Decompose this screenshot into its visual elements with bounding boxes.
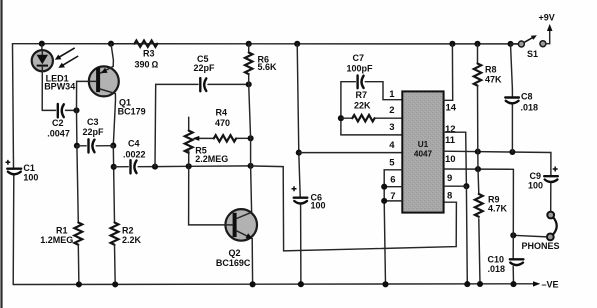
- node top rail C8 junction: [507, 41, 513, 47]
- label Q2: [229, 248, 241, 258]
- node bottom rail pins567: [382, 281, 388, 287]
- transistor Q2: [225, 209, 257, 241]
- label +9V: [539, 13, 555, 23]
- label C5: [197, 54, 209, 64]
- svg-text:BPW34: BPW34: [44, 82, 75, 92]
- wire left rail upper: [13, 44, 14, 168]
- wire pin12 to pin9 column: [444, 132, 467, 186]
- wire C4 line right: [138, 165, 250, 168]
- svg-text:2.2K: 2.2K: [122, 235, 142, 245]
- svg-text:C7: C7: [353, 53, 365, 63]
- pin 3: [389, 122, 394, 133]
- label plus C1: [6, 160, 11, 165]
- svg-text:14: 14: [446, 102, 457, 113]
- svg-text:C3: C3: [87, 117, 99, 127]
- wire R8 R9 link: [477, 152, 479, 170]
- svg-text:Q2: Q2: [229, 248, 241, 258]
- label plus C6: [292, 186, 297, 191]
- node bottom rail R9: [477, 281, 483, 287]
- svg-text:3: 3: [389, 122, 394, 133]
- label 100 C6: [311, 201, 326, 211]
- label R6: [258, 54, 270, 64]
- pin 10: [445, 154, 456, 165]
- node top rail C6 junction: [294, 41, 300, 47]
- node bottom rail R1: [76, 281, 82, 287]
- wire pin9 column lower: [465, 186, 468, 284]
- label R2: [122, 225, 134, 235]
- wire LED1 top lead: [41, 44, 43, 50]
- pin 9: [447, 173, 452, 184]
- label BPW34: [44, 82, 75, 92]
- switch S1: [511, 35, 546, 47]
- label -VE: [542, 280, 559, 290]
- pin 11: [445, 135, 456, 146]
- svg-text:8: 8: [447, 191, 452, 202]
- svg-text:22K: 22K: [354, 101, 371, 111]
- photodiode LED1: [32, 50, 53, 71]
- wire C5 left branch: [155, 84, 198, 166]
- wire R6 column mid: [249, 84, 251, 165]
- capacitor C3: [89, 139, 95, 152]
- label R9: [488, 195, 500, 205]
- wire top rail: [13, 43, 520, 45]
- svg-text:100: 100: [528, 180, 543, 190]
- svg-text:100: 100: [311, 201, 326, 211]
- node pin7 junction: [381, 198, 387, 204]
- label C10: [488, 255, 505, 265]
- wire pin9 stub: [444, 185, 467, 187]
- node C4 line C5 junction: [152, 164, 158, 170]
- wire pin11 corner to C9: [550, 153, 552, 177]
- label C8: [521, 91, 533, 101]
- resistor R1: [74, 223, 82, 245]
- label 100pF: [347, 64, 374, 74]
- wire Q1 collector down: [113, 94, 115, 146]
- svg-text:470: 470: [215, 118, 230, 128]
- resistor R2: [111, 223, 119, 245]
- svg-text:–VE: –VE: [542, 280, 559, 290]
- svg-text:R8: R8: [485, 64, 497, 74]
- label R3: [143, 48, 155, 58]
- label C1: [23, 163, 35, 173]
- wire Q1 emitter to rail: [111, 44, 113, 67]
- node top rail R6 junction: [246, 41, 252, 47]
- wire phones bottom line: [513, 235, 547, 237]
- wire R2 bottom lead: [114, 245, 117, 285]
- node bottom rail pin9: [464, 281, 470, 287]
- capacitor C8: [505, 89, 519, 152]
- wire R2 column upper: [113, 146, 114, 223]
- svg-text:C10: C10: [488, 255, 505, 265]
- node C4 line R6 junction: [248, 163, 254, 169]
- node pin9 junction: [463, 183, 469, 189]
- svg-text:6: 6: [390, 174, 395, 185]
- capacitor C4: [131, 160, 137, 173]
- node R7 junction: [338, 115, 344, 121]
- node C4 left junction: [111, 164, 117, 170]
- node top rail LED junction: [39, 41, 45, 47]
- pin 14: [446, 102, 457, 113]
- svg-text:4047: 4047: [414, 150, 433, 159]
- node C2 junction: [73, 107, 79, 113]
- svg-text:5: 5: [389, 157, 395, 168]
- label .018 C8: [521, 102, 539, 112]
- light arrow lower into LED1: [58, 56, 78, 68]
- svg-text:100pF: 100pF: [347, 64, 374, 74]
- pin 1: [389, 89, 395, 100]
- node top rail pin14 junction: [449, 41, 455, 47]
- IC U1 4047: [402, 91, 443, 212]
- wire node line to pin8: [251, 166, 457, 251]
- label BC169C: [216, 258, 251, 268]
- wire C2 right lead: [66, 109, 77, 111]
- label C7: [353, 53, 365, 63]
- pin 12: [445, 124, 456, 135]
- svg-text:1: 1: [389, 89, 395, 100]
- wire S1 to +9V arrow: [546, 24, 553, 44]
- svg-text:S1: S1: [527, 49, 538, 59]
- svg-text:.0047: .0047: [47, 128, 70, 138]
- svg-text:22pF: 22pF: [83, 127, 105, 137]
- node bottom rail C10: [510, 281, 516, 287]
- svg-text:12: 12: [445, 124, 456, 135]
- pin 2: [389, 105, 394, 116]
- potentiometer R5: [185, 117, 193, 166]
- svg-text:11: 11: [445, 135, 456, 146]
- label C3: [87, 117, 99, 127]
- wire pin4 line: [299, 152, 403, 154]
- wire C6 bottom lead: [300, 205, 302, 284]
- wire C2 left lead: [42, 109, 55, 111]
- capacitor C9: [544, 176, 558, 211]
- label Q1: [119, 98, 131, 108]
- resistor R3: [135, 41, 158, 47]
- label 22pF C3: [83, 127, 105, 137]
- node bottom rail R2: [112, 281, 118, 287]
- wire C5 right lead: [208, 83, 249, 85]
- phones jack top terminal: [547, 212, 554, 219]
- label 390ohm: [135, 59, 159, 69]
- svg-text:C4: C4: [128, 138, 140, 148]
- node bottom rail Q2: [250, 281, 256, 287]
- svg-text:10: 10: [445, 154, 456, 165]
- svg-text:R3: R3: [143, 48, 155, 58]
- label 4.7K: [488, 203, 508, 213]
- node bottom rail C6: [298, 281, 304, 287]
- label 100 C1: [23, 172, 38, 182]
- pin 7: [390, 191, 395, 202]
- capacitor C5: [200, 78, 206, 91]
- wire R4 right lead: [236, 137, 251, 139]
- resistor R9: [475, 169, 483, 284]
- label R4: [216, 108, 228, 118]
- node pin10 R8R9 junction: [475, 166, 481, 172]
- svg-text:.018: .018: [521, 102, 539, 112]
- svg-text:47K: 47K: [485, 74, 502, 84]
- label .018 C10: [488, 264, 506, 274]
- svg-text:C2: C2: [52, 118, 64, 128]
- svg-text:BC169C: BC169C: [216, 258, 251, 268]
- wire C6 column upper: [297, 44, 300, 197]
- svg-text:R7: R7: [356, 90, 368, 100]
- node C5 R6 junction: [246, 81, 252, 87]
- label R7: [356, 90, 368, 100]
- label .0047: [47, 128, 70, 138]
- label 22K: [354, 101, 371, 111]
- svg-text:22pF: 22pF: [194, 63, 216, 73]
- capacitor C1: [7, 169, 21, 175]
- label C4: [128, 138, 140, 148]
- svg-text:BC179: BC179: [118, 107, 146, 117]
- capacitor C10: [510, 259, 524, 284]
- capacitor C2: [58, 104, 64, 117]
- label R1: [56, 225, 68, 235]
- pin 8: [447, 191, 452, 202]
- svg-text:5.6K: 5.6K: [258, 62, 278, 72]
- node pin11 C8 junction: [509, 149, 515, 155]
- resistor R7: [341, 115, 402, 121]
- phones jack bottom terminal: [547, 234, 554, 241]
- node C3 right junction: [110, 143, 116, 149]
- svg-text:1.2MEG: 1.2MEG: [40, 235, 73, 245]
- svg-text:C8: C8: [521, 91, 533, 101]
- label 22pF C5: [194, 63, 216, 73]
- wire R1 column upper: [77, 146, 78, 223]
- wire Q1 base: [77, 81, 97, 110]
- svg-text:9: 9: [447, 173, 452, 184]
- wire pin3 stub: [341, 134, 402, 136]
- wire bottom rail: [13, 283, 533, 286]
- node pin11 R8 junction: [475, 149, 481, 155]
- node pin6 junction: [381, 184, 387, 190]
- svg-text:R4: R4: [216, 108, 228, 118]
- wire C3 left lead: [77, 145, 86, 147]
- pin 6: [390, 174, 395, 185]
- svg-text:U1: U1: [418, 140, 429, 149]
- label C6: [311, 193, 323, 203]
- label C2: [52, 118, 64, 128]
- label R8: [485, 64, 497, 74]
- node top rail Q1 junction: [108, 41, 114, 47]
- wire Q2 emitter down: [251, 239, 253, 285]
- wire LED1 bottom lead: [41, 71, 43, 110]
- svg-text:.0022: .0022: [123, 150, 146, 160]
- wire C3 right lead: [96, 145, 113, 147]
- label 2.2K: [122, 235, 142, 245]
- wire R4 wiper arrow: [192, 136, 214, 141]
- label 470: [215, 118, 230, 128]
- node top rail R8 junction: [474, 41, 480, 47]
- svg-text:C9: C9: [530, 171, 542, 181]
- wire pin10 column: [512, 169, 514, 258]
- wire C7 node branch: [341, 82, 355, 135]
- node R4 R6 junction: [248, 135, 254, 141]
- wire pins 5 6 7 bus: [384, 170, 402, 284]
- label plus C9: [553, 167, 558, 172]
- svg-text:+9V: +9V: [539, 13, 555, 23]
- wire pin14 to rail: [444, 44, 453, 101]
- svg-text:390 Ω: 390 Ω: [135, 59, 159, 69]
- node phones C10 junction: [510, 232, 516, 238]
- wire pin11 line: [444, 151, 551, 152]
- wire R1 bottom lead: [77, 245, 80, 285]
- wire pin10 line: [444, 168, 514, 170]
- resistor R8: [474, 44, 481, 152]
- label 100 C9: [528, 180, 543, 190]
- label R5: [195, 145, 207, 155]
- wire C8 top lead: [511, 44, 513, 89]
- capacitor C7: [358, 75, 364, 88]
- label -VE arrow: [533, 281, 540, 286]
- svg-text:.018: .018: [488, 264, 506, 274]
- light arrow upper into LED1: [55, 48, 75, 60]
- wire base column C2 to C3: [76, 110, 78, 145]
- svg-text:4.7K: 4.7K: [488, 203, 508, 213]
- label 2.2MEG: [195, 154, 228, 164]
- svg-text:R2: R2: [122, 225, 134, 235]
- capacitor C6: [294, 198, 308, 204]
- label C9: [530, 171, 542, 181]
- svg-text:4: 4: [389, 140, 395, 151]
- wire C4 line left: [114, 166, 129, 168]
- pin 5: [389, 157, 395, 168]
- label PHONES: [522, 241, 560, 251]
- svg-text:2: 2: [389, 105, 394, 116]
- svg-text:PHONES: PHONES: [522, 241, 560, 251]
- svg-text:2.2MEG: 2.2MEG: [195, 154, 228, 164]
- svg-text:R1: R1: [56, 225, 68, 235]
- wire Q2 collector up: [251, 166, 252, 212]
- resistor R6: [245, 44, 252, 85]
- label .0022: [123, 150, 146, 160]
- node C4 line R5 junction: [186, 163, 192, 169]
- label 5.6K: [258, 62, 278, 72]
- wire left rail lower: [12, 176, 15, 285]
- wire C7 to pin1: [365, 82, 402, 100]
- label BC179: [118, 107, 146, 117]
- phones jack arc: [553, 217, 557, 234]
- pin 4: [389, 140, 395, 151]
- node C3 left junction: [74, 143, 80, 149]
- label 1.2MEG: [40, 235, 73, 245]
- label 47K: [485, 74, 502, 84]
- svg-text:100: 100: [23, 172, 38, 182]
- transistor Q1: [89, 66, 119, 96]
- label S1: [527, 49, 538, 59]
- label LED1: [46, 73, 69, 83]
- resistor R4: [214, 135, 236, 141]
- node pin4 C6 junction: [296, 150, 302, 156]
- wire Q2 base: [189, 166, 233, 225]
